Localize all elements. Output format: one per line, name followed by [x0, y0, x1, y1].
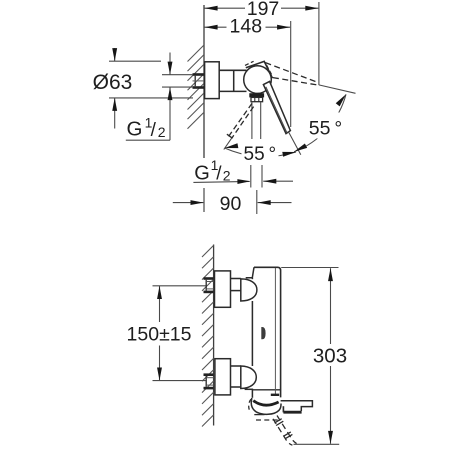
svg-text:55 °: 55 ° [244, 144, 277, 165]
svg-text:G: G [194, 162, 210, 184]
svg-text:/: / [216, 164, 222, 185]
svg-text:150±15: 150±15 [127, 324, 192, 346]
svg-text:55 °: 55 ° [309, 117, 342, 139]
svg-text:2: 2 [158, 124, 166, 140]
svg-text:148: 148 [230, 16, 263, 38]
svg-text:2: 2 [223, 167, 231, 183]
svg-text:90: 90 [220, 193, 242, 215]
svg-text:G: G [127, 117, 143, 140]
svg-text:303: 303 [313, 345, 347, 368]
svg-text:/: / [151, 120, 157, 141]
svg-text:Ø63: Ø63 [93, 71, 133, 94]
